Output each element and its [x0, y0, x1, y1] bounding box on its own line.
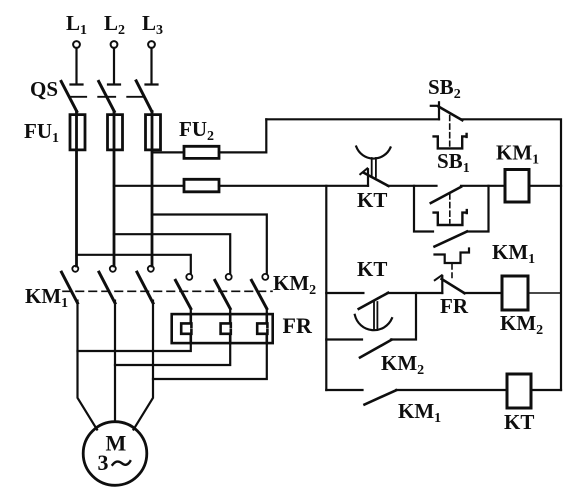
pushbutton SB2 actuator: [434, 116, 467, 149]
pushbutton SB1 actuator: [434, 194, 467, 225]
motor M circle: [83, 422, 147, 486]
contactor KM1 main label: [25, 284, 68, 311]
wire FR out 1 crossover to phase 1: [78, 343, 191, 351]
wire L1 drop to QS: [71, 48, 83, 85]
switch QS linkage (dashed): [69, 96, 143, 98]
thermal relay FR element 2: [221, 314, 231, 343]
time relay KT delayed contact (rung 2): [355, 293, 392, 330]
svg-text:3: 3: [98, 450, 109, 475]
coil KM2 label: [500, 311, 543, 338]
switch QS pole 3 blade: [136, 81, 152, 112]
coil KT label: [504, 410, 534, 434]
contact KM1 aux label: [492, 240, 535, 267]
svg-text:FU2: FU2: [179, 117, 214, 144]
wire KM1 coil to right rail: [529, 185, 561, 187]
contactor KM1 main contact 1: [62, 266, 79, 303]
time relay KT contact label (rung 2): [357, 257, 387, 281]
self-hold branch right wire: [467, 186, 489, 232]
contactor KM1 main contact 2: [99, 266, 116, 303]
svg-text:QS: QS: [30, 77, 58, 101]
thermal relay FR element 1: [181, 314, 191, 343]
coil KT: [507, 374, 531, 408]
contact KM1 rung3 label: [398, 399, 441, 426]
wire FR out 2 crossover to phase 2: [115, 343, 230, 365]
wire motor lead 3: [134, 301, 154, 430]
contactor KM2 main contact 3: [252, 274, 269, 309]
coil KM1: [505, 170, 529, 203]
fuse FU1 pole 1: [70, 112, 85, 267]
linkage dashes to FR contact: [451, 265, 453, 279]
svg-text:M: M: [106, 431, 127, 456]
thermal relay FR label: [283, 313, 313, 338]
coil KM1 label: [496, 141, 539, 168]
wire motor lead 2: [114, 301, 116, 422]
wire KT coil to right rail: [531, 389, 561, 391]
terminal L1: [73, 41, 80, 48]
wire motor lead 1: [78, 301, 98, 430]
wire KM2 coil to right rail: [528, 292, 561, 294]
time relay KT contact label (rung 1): [357, 188, 387, 212]
contact KM2 aux NO blade: [360, 340, 392, 358]
wire rung 2 left: [326, 292, 363, 294]
switch QS label: [30, 77, 58, 101]
main contacts linkage (dashed): [63, 290, 272, 292]
fuse FU2 upper: [184, 146, 219, 158]
wire branch L1 to KM2 pole 1: [77, 255, 191, 274]
switch QS pole 2 blade: [99, 81, 115, 111]
switch QS pole 1 blade: [61, 81, 77, 111]
contactor KM1 main contact 3: [137, 266, 154, 303]
time relay KT delayed contact (rung 1): [356, 147, 390, 187]
wire rung 1 middle: [388, 185, 437, 187]
fuse FU1 pole 3: [146, 112, 161, 267]
svg-text:SB2: SB2: [428, 75, 461, 102]
wire rung 3 right: [396, 389, 507, 391]
wire FR out 3 crossover to phase 3: [153, 343, 267, 379]
pushbutton SB1 label: [437, 149, 470, 176]
fuse FU1 label: [24, 119, 59, 146]
contactor KM2 main contact 2: [215, 274, 232, 309]
svg-text:KM2: KM2: [381, 351, 424, 378]
svg-text:FU1: FU1: [24, 119, 59, 146]
contact KM2 aux label: [381, 351, 424, 378]
left rail wire: [325, 186, 327, 390]
pushbutton SB1 blade (NO start): [431, 187, 461, 203]
wire branch L2 to KM2 pole 2: [114, 234, 230, 273]
svg-text:KM2: KM2: [273, 271, 316, 298]
wire FU2 upper to control top rail: [219, 119, 266, 152]
fuse FU2 label: [179, 117, 214, 144]
contact FR label: [440, 294, 469, 318]
wire rung 3 left: [326, 389, 362, 391]
contact FR NC (overload): [435, 275, 465, 293]
node L3 label: [142, 11, 163, 38]
wire L3 to FU2 upper: [152, 151, 184, 153]
KM1 aux linkage bracket: [435, 249, 470, 264]
wire rung 2 middle: [388, 292, 443, 294]
motor tilde stroke: [113, 461, 131, 465]
svg-text:FR: FR: [283, 313, 313, 338]
contact KM1 aux NO (rung 3): [365, 390, 397, 404]
svg-text:KT: KT: [357, 188, 387, 212]
wire rung 2 right: [464, 292, 502, 294]
wire KM2 outputs into FR: [191, 309, 267, 315]
svg-text:L2: L2: [104, 11, 125, 38]
wire L2 to FU2 lower: [114, 185, 184, 187]
contactor KM2 main contact 1: [176, 274, 193, 309]
coil KM2: [502, 276, 528, 310]
fuse FU1 pole 2: [108, 112, 123, 267]
motor M label: [106, 431, 127, 456]
pushbutton SB2 blade (NC stop): [431, 102, 463, 120]
contact KM1 aux NO (self-hold): [435, 232, 468, 247]
contactor KM2 main label: [273, 271, 316, 298]
svg-text:KM1: KM1: [496, 141, 539, 168]
svg-text:L3: L3: [142, 11, 163, 38]
motor 3-phase label: [98, 450, 109, 475]
node L2 label: [104, 11, 125, 38]
terminal L2: [111, 41, 118, 48]
wire FU2 lower to rung 1 (control left feed): [219, 185, 368, 187]
svg-text:FR: FR: [440, 294, 469, 318]
contact KM2 aux NO (parallel) wire: [326, 293, 416, 340]
terminal L3: [148, 41, 155, 48]
node L1 label: [66, 11, 87, 38]
self-hold branch left wire: [414, 186, 433, 232]
svg-text:SB1: SB1: [437, 149, 470, 176]
svg-text:KM1: KM1: [25, 284, 68, 311]
svg-text:KM1: KM1: [492, 240, 535, 267]
thermal relay FR element 3: [257, 314, 267, 343]
pushbutton SB2 label: [428, 75, 461, 102]
wire branch L3 to KM2 pole 3: [152, 215, 267, 274]
wire L3 drop to QS: [146, 48, 158, 85]
svg-text:KM2: KM2: [500, 311, 543, 338]
wire L2 drop to QS: [108, 48, 120, 85]
top rail wire: [266, 119, 561, 390]
svg-text:L1: L1: [66, 11, 87, 38]
fuse FU2 lower: [184, 179, 219, 192]
svg-text:KT: KT: [504, 410, 534, 434]
thermal relay FR box: [172, 314, 273, 343]
wire rung 1 right: [461, 185, 505, 187]
svg-text:KT: KT: [357, 257, 387, 281]
svg-text:KM1: KM1: [398, 399, 441, 426]
